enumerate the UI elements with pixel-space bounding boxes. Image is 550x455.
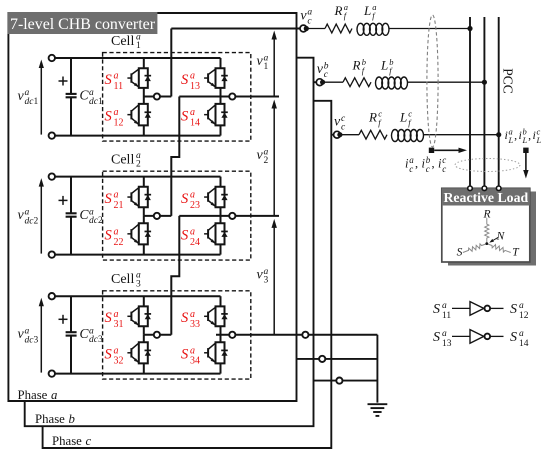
iL sensor square and arrow [523,148,528,179]
svg-text:i: i [519,128,522,142]
cell 1 dashed box [103,53,251,142]
label Cdc3 [80,326,103,345]
right mid node cell 3 [229,332,235,338]
load terminal a [468,186,473,191]
svg-text:,: , [432,157,435,171]
svg-text:Cell: Cell [111,34,134,49]
dc bus top rail cell 2 [55,176,221,178]
ground symbol [368,404,388,416]
load terminal b [482,186,487,191]
resistor Rf c [359,130,387,139]
label S12 [105,107,124,128]
inverter bubble 2 [485,334,491,340]
right mid node cell 1 [229,93,235,99]
left leg wires cell 2 [143,177,145,255]
wire series link cell1 to cell2 [171,97,179,216]
neutral wire phase b [297,358,378,360]
ic sensor square and arrow [429,148,467,153]
svg-text:dc1: dc1 [25,97,39,107]
wire gate input 1 [452,307,470,309]
wire vc b to filter [314,81,485,83]
svg-text:a: a [190,226,195,237]
wire vc c to filter [331,134,498,136]
svg-text:dc2: dc2 [25,216,39,226]
right mid output wire cell 1 [179,96,279,98]
label S24 [181,226,200,247]
label vc c [334,114,346,133]
label S14 [181,107,200,128]
right mid output wire cell 2 [179,215,279,217]
svg-text:a: a [519,329,524,339]
wire vc a to filter [171,28,470,30]
neutral terminal phase a [302,332,308,338]
svg-text:S: S [105,72,113,88]
wire gate input 2 [452,335,470,337]
vdc2 measurement arrow [40,185,42,254]
left mid node cell 1 [154,93,160,99]
junction dot pcc b [482,80,487,85]
label Rf a [334,2,349,21]
svg-text:v: v [18,89,25,104]
label ic a b c [405,155,446,174]
svg-text:L: L [399,109,407,124]
svg-text:a: a [114,345,119,356]
svg-text:N: N [496,231,506,243]
svg-text:S: S [457,247,463,259]
neutral wire phase c [314,380,378,382]
svg-text:R: R [334,3,343,18]
svg-text:v: v [334,115,341,130]
label Cdc1 [80,88,103,107]
svg-text:,: , [528,128,531,142]
svg-text:v: v [300,8,307,23]
label Lf c [399,109,412,128]
pcc bus line 3 [498,17,500,188]
svg-text:a: a [190,71,195,82]
svg-text:a: a [442,329,447,339]
load star branch R [485,218,489,243]
left leg wires cell 1 [143,58,145,136]
title box 7-level CHB converter [8,12,158,34]
svg-text:S: S [105,228,113,244]
label S11 gate input [433,301,451,321]
load star branch T [488,244,511,253]
svg-text:L: L [363,3,371,18]
svg-text:S: S [105,108,113,124]
resistor Rf b [343,78,371,87]
plus sign cell 3 [59,318,68,320]
svg-text:R: R [368,109,377,124]
transistor S32 (IGBT with antiparallel diode) [127,342,151,363]
svg-text:C: C [80,207,90,222]
svg-text:S: S [510,302,517,317]
label vc a [300,8,312,27]
right mid node cell 2 [229,213,235,219]
transistor S21 (IGBT with antiparallel diode) [127,187,151,208]
svg-text:c: c [86,434,92,448]
svg-text:Phase: Phase [52,434,82,448]
inverter bubble 1 [485,306,491,312]
left leg wires cell 3 [143,296,145,373]
neutral terminal phase b [319,356,325,362]
svg-text:a: a [190,107,195,118]
pcc bus line 2 [483,17,485,188]
svg-text:a: a [442,301,447,311]
label S13 [181,71,200,92]
resistor Rf a [325,24,352,33]
right leg wires cell 2 [220,177,222,255]
wire series link cell2 to cell3 [171,216,179,335]
svg-text:v: v [257,148,264,163]
svg-text:23: 23 [190,200,200,211]
label Rf c [368,109,382,128]
label Cell 1 [111,32,141,51]
transistor S11 (IGBT with antiparallel diode) [127,68,151,88]
label S21 [105,190,124,211]
transistor S24 (IGBT with antiparallel diode) [204,223,228,244]
svg-text:13: 13 [190,81,200,92]
plus sign cell 2 [59,199,68,201]
left mid output wire cell 3 [144,334,172,336]
vdc3 measurement arrow [40,304,42,372]
svg-text:v: v [18,208,25,223]
svg-text:R: R [352,58,361,73]
svg-text:S: S [181,228,189,244]
label vdc2 [18,208,39,227]
svg-text:v: v [257,267,264,282]
svg-text:v: v [317,62,324,77]
svg-text:a: a [51,388,57,402]
plus sign cell 1 [59,80,68,82]
label S34 [181,345,200,366]
dotted measurement ellipse iL [455,159,520,172]
vdc1 measurement arrow [40,66,42,135]
svg-text:a: a [190,345,195,356]
svg-text:L: L [380,58,388,73]
svg-text:1: 1 [264,62,269,72]
label Phase c [52,434,92,448]
label Phase b [35,412,76,426]
v1 measurement arrow [272,31,277,97]
capacitor Cdc1 [66,58,77,136]
svg-text:S: S [181,72,189,88]
svg-text:a: a [190,190,195,201]
phase c converter box outline [43,101,332,448]
junction dot pcc c [496,132,501,137]
transistor S22 (IGBT with antiparallel diode) [127,223,151,244]
label S32 [105,345,124,366]
junction dot pcc a [467,26,472,31]
svg-text:S: S [181,191,189,207]
svg-text:c: c [409,164,413,174]
reactive load header [442,188,530,205]
transistor S33 (IGBT with antiparallel diode) [204,306,228,326]
label vc b [317,61,329,80]
label Lf a [363,2,377,21]
cell 3 dashed box [103,291,251,379]
label vdc3 [18,326,39,345]
svg-text:,: , [415,157,418,171]
label Lf b [380,57,394,76]
inverter gate 1 [470,302,484,316]
right leg wires cell 3 [220,296,222,373]
terminal vc c [334,131,343,138]
svg-text:i: i [533,128,536,142]
svg-text:,: , [514,128,517,142]
right leg wires cell 1 [220,58,222,136]
svg-text:33: 33 [190,319,200,330]
svg-text:21: 21 [114,200,124,211]
capacitor Cdc3 [66,296,77,373]
svg-text:v: v [257,54,264,69]
neutral terminal phase c [336,378,342,384]
label S23 [181,190,200,211]
label S14 gate output [510,329,529,349]
transistor S12 (IGBT with antiparallel diode) [127,104,151,126]
load terminal c [496,186,501,191]
svg-text:R: R [482,209,490,221]
svg-text:14: 14 [190,118,200,129]
pcc bus line 1 [469,17,471,188]
svg-text:i: i [505,128,508,142]
svg-text:Reactive Load: Reactive Load [443,190,528,205]
svg-text:S: S [105,310,113,326]
svg-text:b: b [69,412,76,426]
label Phase a [18,388,58,402]
transistor S34 (IGBT with antiparallel diode) [204,342,228,363]
load star branch S [463,244,486,253]
terminal vc a [300,25,309,32]
svg-text:12: 12 [114,118,124,129]
label v3 [257,267,269,286]
svg-text:a: a [114,107,119,118]
svg-text:13: 13 [442,339,452,349]
svg-text:3: 3 [264,276,269,286]
inductor Lf a [357,23,364,35]
svg-text:3: 3 [136,279,141,289]
label S12 gate output [510,301,529,321]
dc terminal bottom cell 3 [49,370,55,376]
reactive load box [442,188,530,262]
svg-text:dc2: dc2 [89,216,103,226]
svg-text:PCC: PCC [501,68,516,94]
svg-text:14: 14 [519,339,529,349]
label iL a b c [505,126,542,145]
left mid node cell 3 [154,332,160,338]
right mid output wire cell 3 [216,334,377,336]
svg-text:S: S [433,330,440,345]
terminal vc b [316,79,325,86]
svg-text:C: C [80,88,90,103]
label N and arrow [489,231,505,243]
left mid node cell 2 [154,213,160,219]
svg-text:a: a [114,71,119,82]
dc bus bottom rail cell 1 [55,135,221,137]
capacitor Cdc2 [66,177,77,255]
v3 measurement arrow [272,219,277,335]
svg-text:v: v [18,327,25,342]
svg-text:dc3: dc3 [89,335,103,345]
v2 measurement arrow [272,100,277,216]
label S13 gate input [433,329,452,349]
label v2 [257,147,269,166]
dc terminal top cell 2 [49,173,55,179]
svg-text:12: 12 [519,311,529,321]
ground bus wire [376,335,378,403]
svg-text:dc3: dc3 [25,335,39,345]
cell 2 dashed box [103,171,251,260]
transistor S14 (IGBT with antiparallel diode) [204,104,228,126]
transistor S23 (IGBT with antiparallel diode) [204,187,228,208]
inverter gate 2 [470,330,484,344]
svg-text:24: 24 [190,237,200,248]
label S22 [105,226,124,247]
svg-text:Cell: Cell [111,153,134,168]
svg-text:S: S [510,330,517,345]
svg-text:S: S [105,191,113,207]
svg-text:Phase: Phase [35,412,65,426]
svg-text:dc1: dc1 [89,97,103,107]
dc terminal top cell 3 [49,293,55,299]
svg-text:C: C [80,326,90,341]
label vdc1 [18,88,39,107]
svg-text:a: a [114,190,119,201]
svg-text:a: a [190,309,195,320]
svg-text:S: S [433,302,440,317]
dc terminal bottom cell 1 [49,132,55,138]
svg-text:31: 31 [114,319,124,330]
label S11 [105,71,124,92]
svg-text:S: S [181,310,189,326]
svg-text:34: 34 [190,356,200,367]
dc terminal bottom cell 2 [49,251,55,257]
phase a converter box outline [8,13,296,401]
inductor Lf c [392,130,399,142]
svg-text:S: S [181,347,189,363]
svg-text:c: c [426,164,430,174]
svg-text:a: a [519,301,524,311]
label Cell 3 [111,271,141,290]
svg-text:Phase: Phase [18,388,48,402]
dc bus top rail cell 3 [55,295,221,297]
svg-text:11: 11 [442,311,451,321]
label S33 [181,309,200,330]
svg-text:S: S [181,108,189,124]
svg-text:a: a [114,226,119,237]
svg-text:c: c [442,164,446,174]
svg-text:a: a [114,309,119,320]
svg-text:7-level CHB converter: 7-level CHB converter [10,16,156,33]
dc bus bottom rail cell 2 [55,254,221,256]
svg-text:22: 22 [114,237,124,248]
svg-text:1: 1 [136,41,141,51]
svg-text:L: L [508,135,514,145]
dc bus top rail cell 1 [55,57,221,59]
dc terminal top cell 1 [49,55,55,61]
transistor S31 (IGBT with antiparallel diode) [127,306,151,326]
load star center node [485,242,488,245]
dc bus bottom rail cell 3 [55,373,221,375]
label v1 [257,53,269,72]
svg-text:L: L [536,135,542,145]
svg-text:2: 2 [264,156,269,166]
svg-text:2: 2 [136,160,141,170]
svg-text:11: 11 [114,81,124,92]
wire gate output 2 [490,335,503,337]
svg-text:S: S [105,347,113,363]
label Cell 2 [111,151,141,170]
left mid output wire cell 2 [144,215,172,217]
dashed measurement ellipse ic [427,15,438,147]
svg-text:32: 32 [114,356,124,367]
wire phase a output riser (cell1 left mid up to vc a) [170,29,172,97]
wire gate output 1 [490,307,503,309]
svg-text:L: L [522,135,528,145]
label S31 [105,309,124,330]
inductor Lf b [376,77,383,89]
left mid output wire cell 1 [144,96,172,98]
transistor S13 (IGBT with antiparallel diode) [204,68,228,88]
phase b converter box outline [25,58,314,427]
svg-text:Cell: Cell [111,272,134,287]
reactive load shadow [448,192,536,266]
label Cdc2 [80,207,103,226]
label Rf b [352,57,367,76]
